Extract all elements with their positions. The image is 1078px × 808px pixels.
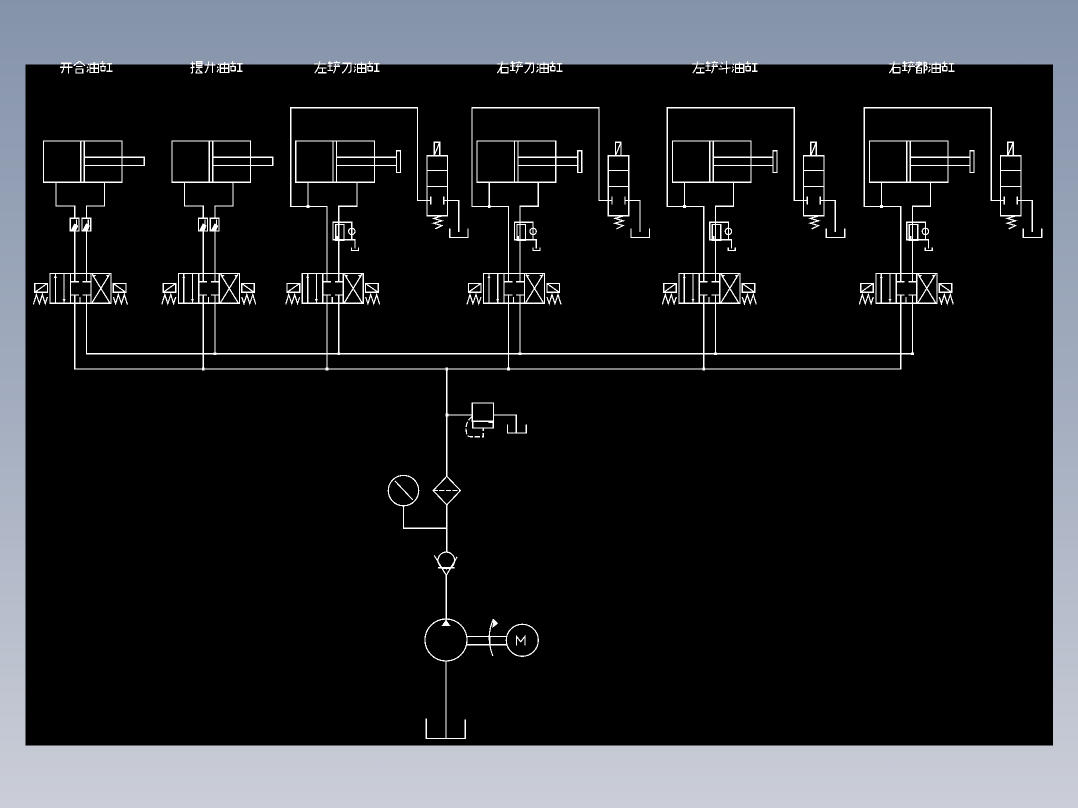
label 右铲都油缸 bbox=[889, 61, 955, 73]
line filter to check valve bbox=[446, 505, 448, 552]
rotation arrow bbox=[489, 620, 493, 656]
electric motor bbox=[506, 624, 538, 656]
main pressure line from pump bbox=[446, 369, 448, 476]
drive shaft bbox=[467, 637, 506, 645]
check valve bbox=[438, 552, 455, 569]
pump suction line bbox=[445, 661, 447, 738]
label 左铲刀油缸 bbox=[314, 61, 380, 73]
gauge line bbox=[404, 506, 447, 528]
relief outlet to tank bbox=[494, 415, 517, 432]
relief valve tap line bbox=[447, 414, 473, 416]
pressure gauge bbox=[388, 475, 418, 505]
relief pilot dashed loop bbox=[466, 417, 483, 437]
bus junctions bbox=[202, 352, 914, 370]
cylinder group 6 右铲斗油缸 bbox=[860, 108, 1042, 369]
filter bbox=[433, 476, 460, 505]
cylinder group 3 左铲刀油缸 bbox=[286, 108, 468, 369]
junction at relief tap bbox=[445, 414, 448, 417]
relief valve body bbox=[472, 403, 493, 421]
pressure bus line bbox=[75, 368, 901, 370]
line check valve to pump bbox=[445, 575, 447, 619]
label 提升油缸 bbox=[191, 61, 243, 73]
cylinder group 5 左铲斗油缸 bbox=[663, 108, 845, 369]
label 右铲刀油缸 bbox=[497, 61, 563, 73]
relief valve lower block bbox=[473, 421, 494, 428]
return bus line bbox=[87, 353, 913, 355]
cylinder group 4 右铲刀油缸 bbox=[467, 108, 649, 369]
cylinder group 1 开合油缸 bbox=[34, 141, 145, 369]
label 左铲斗油缸 bbox=[692, 61, 758, 73]
motor label M bbox=[517, 636, 525, 644]
relief tank bbox=[508, 425, 527, 433]
oil tank bbox=[426, 719, 465, 738]
hydraulic pump bbox=[425, 619, 467, 661]
label 开合油缸 bbox=[60, 61, 112, 73]
cylinder group 2 提升油缸 bbox=[162, 141, 273, 369]
